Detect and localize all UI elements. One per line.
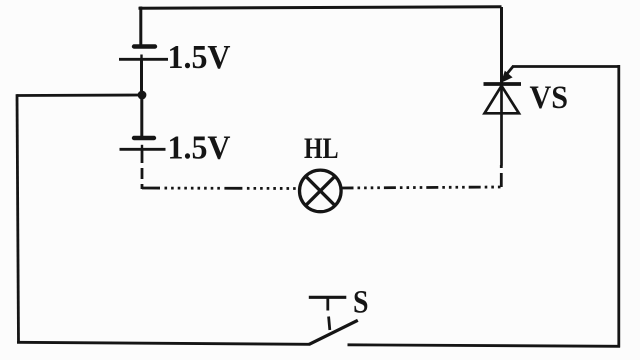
node junction dot <box>138 91 147 100</box>
svg-text:VS: VS <box>530 80 569 116</box>
wire battery GB2 bottom lead <box>141 150 144 163</box>
thyristor VS anode triangle <box>485 86 519 114</box>
lamp HL cross stroke 1 <box>306 176 335 205</box>
wire right vertical <box>617 65 620 348</box>
thyristor VS gate arrowhead <box>501 71 513 83</box>
wire VS vertical bottom <box>500 86 503 166</box>
lamp HL cross stroke 2 <box>306 176 335 205</box>
battery GB2 positive plate (long thin) <box>120 148 166 151</box>
wire VS vertical top <box>500 7 503 83</box>
switch S blade <box>309 320 358 344</box>
wire GB1 to junction <box>140 60 143 96</box>
wire battery top lead <box>139 7 142 46</box>
wire bottom left segment <box>17 342 310 344</box>
switch S button bar <box>309 296 347 299</box>
svg-text:1.5V: 1.5V <box>168 129 231 166</box>
wire dashed vertical below GB2 <box>141 168 144 189</box>
wire top horizontal <box>139 7 502 8</box>
wire junction to GB2 <box>140 95 143 137</box>
wire dashed vertical below VS <box>500 165 503 187</box>
switch S stem upper <box>326 298 329 311</box>
svg-text:HL: HL <box>304 132 339 165</box>
svg-text:1.5V: 1.5V <box>168 39 231 76</box>
wire dash-dot horizontal battery to lamp <box>142 187 300 190</box>
battery GB2 inner tick <box>141 145 143 149</box>
battery GB2 negative plate (short thick) <box>134 136 154 140</box>
battery GB1 positive plate (long thin) <box>119 58 168 61</box>
wire dash-dot horizontal lamp to VS <box>342 187 502 188</box>
wire bottom right segment <box>348 345 621 347</box>
lamp HL circle <box>300 170 342 212</box>
battery GB1 negative plate (short thick) <box>134 44 155 48</box>
battery GB1 inner tick <box>140 55 142 60</box>
wire left vertical <box>17 94 19 343</box>
wire gate horizontal to right branch <box>512 65 620 68</box>
wire left horizontal <box>17 94 143 97</box>
thyristor VS cathode bar <box>484 82 522 86</box>
svg-text:S: S <box>353 285 369 321</box>
switch S stem lower <box>329 317 330 331</box>
thyristor VS gate diagonal lead <box>506 67 513 76</box>
